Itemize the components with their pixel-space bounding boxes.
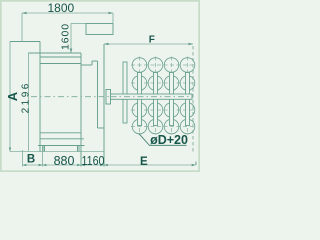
svg-text:1800: 1800	[48, 1, 75, 15]
svg-text:E: E	[140, 156, 148, 168]
svg-text:2196: 2196	[21, 81, 32, 113]
svg-text:1160: 1160	[82, 154, 105, 168]
svg-text:880: 880	[54, 154, 75, 168]
svg-text:F: F	[149, 34, 155, 45]
svg-text:A: A	[5, 91, 20, 101]
svg-text:B: B	[27, 154, 35, 166]
svg-text:øD+20: øD+20	[150, 133, 188, 147]
svg-text:1600: 1600	[59, 23, 71, 50]
